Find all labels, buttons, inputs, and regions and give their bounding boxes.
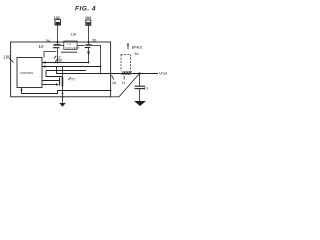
junction dot gnd/93.5 bbox=[62, 93, 64, 95]
chip bottom edge extension bbox=[111, 96, 119, 98]
wire chip to coil bbox=[111, 73, 132, 75]
svg-text:I-V: I-V bbox=[68, 42, 72, 46]
wire rail node A (y63) bbox=[42, 62, 89, 64]
ground stem bottom center bbox=[62, 91, 64, 104]
junction dot control ground stub bbox=[21, 89, 23, 91]
wire coil to Vout bbox=[131, 73, 158, 75]
pin terminal 104 (right top) bbox=[85, 16, 91, 42]
svg-text:118: 118 bbox=[71, 32, 77, 36]
junction dot rail A / 54 bbox=[57, 62, 59, 64]
svg-text:11: 11 bbox=[122, 81, 126, 85]
wire rail node C (y70.8) bbox=[46, 67, 86, 71]
chip outline box 10 bbox=[11, 42, 111, 97]
label 12 with leader bbox=[54, 56, 56, 59]
capacitor C1 bbox=[135, 74, 146, 102]
svg-text:CONTROL: CONTROL bbox=[20, 71, 34, 75]
svg-text:Vout: Vout bbox=[159, 71, 168, 76]
svg-text:10: 10 bbox=[39, 44, 44, 49]
ground symbol center bbox=[59, 103, 65, 107]
svg-text:58: 58 bbox=[58, 59, 62, 63]
label 58 bbox=[55, 59, 57, 62]
junction dot gnd/chip edge bbox=[62, 96, 64, 98]
svg-text:C1: C1 bbox=[144, 87, 149, 91]
svg-text:FIG. 4: FIG. 4 bbox=[75, 5, 96, 12]
ground bus inside chip bbox=[22, 88, 111, 94]
package dashed box 64 bbox=[121, 55, 131, 72]
arrowhead to gate of 60 bbox=[56, 83, 59, 85]
pin terminal 102 (left top) bbox=[54, 16, 61, 42]
wire output of 56 to node bbox=[92, 45, 101, 73]
node dot pad junction bbox=[133, 73, 135, 75]
node dot left pin on VIN rail bbox=[57, 41, 59, 43]
junction dot rail A / 56 bbox=[88, 62, 90, 64]
junction dot 60 source on ground bus bbox=[62, 90, 64, 92]
svg-text:BPAD1: BPAD1 bbox=[132, 45, 143, 49]
node dot Vout junction bbox=[138, 72, 140, 74]
junction dot rail B / output column bbox=[100, 66, 102, 68]
gate wire control to 54 bbox=[44, 52, 56, 58]
wire under converter box bbox=[61, 51, 77, 53]
arrow BPAD1 bbox=[127, 45, 129, 50]
inductor L1 (bond wire coil) bbox=[122, 71, 132, 75]
node dot right pin on VIN rail bbox=[88, 41, 90, 43]
junction dot bus at chip edge bbox=[110, 90, 112, 92]
wire staircase to gate of 60 bbox=[46, 71, 62, 77]
block U1 (converter box) bbox=[64, 41, 80, 50]
wire control mid output bbox=[42, 80, 59, 82]
junction dot rail D / output column bbox=[100, 73, 102, 75]
wire control lower output with arrow bbox=[42, 84, 56, 86]
arrowhead into control (rail B) bbox=[42, 65, 46, 67]
svg-text:16: 16 bbox=[112, 81, 116, 85]
control block bbox=[17, 58, 42, 88]
label 11 with leader bbox=[123, 76, 125, 80]
transistor 54 (pass device) bbox=[53, 42, 64, 63]
transistor 60 (lower) bbox=[60, 67, 63, 91]
svg-text:54: 54 bbox=[46, 39, 50, 43]
svg-text:64: 64 bbox=[135, 52, 139, 56]
svg-text:CONVERT: CONVERT bbox=[65, 46, 80, 50]
wire rail node D (y73.8 to output pin) bbox=[57, 71, 111, 74]
svg-text:70: 70 bbox=[71, 77, 75, 81]
wire rail node B (y67, feedback) bbox=[42, 66, 101, 68]
ground symbol bbox=[134, 101, 146, 106]
svg-text:56: 56 bbox=[92, 38, 96, 42]
label 16 with leader bbox=[111, 75, 113, 79]
ground return diagonal wire bbox=[119, 74, 140, 97]
transistor 56 bbox=[77, 42, 91, 63]
output pin dot on chip edge bbox=[110, 73, 112, 75]
label 70 with leader bbox=[69, 77, 71, 80]
leader for 100 bbox=[10, 58, 14, 62]
arrowhead into control (rail A) bbox=[42, 61, 46, 63]
